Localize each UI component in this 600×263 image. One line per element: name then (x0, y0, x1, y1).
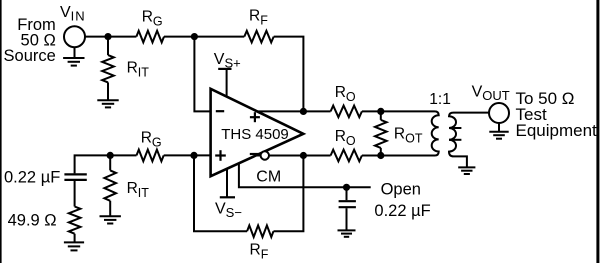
resistor RIT2 (104, 170, 116, 200)
transformer T1 secondary winding (449, 113, 489, 168)
pin + (non-inverting input) (215, 154, 226, 156)
ground (RIT1) (97, 99, 118, 101)
wire node C to RO1 (303, 110, 330, 112)
wire R49.9 to ground (74, 234, 76, 243)
wire node B down to amp inverting input (194, 37, 210, 112)
op-amp U1 THS4509 (211, 89, 304, 176)
ground (49.9 Ω) (64, 241, 84, 243)
node A (top input junction) (104, 33, 111, 40)
wire node D down to RIT2 (109, 155, 111, 170)
svg-text:1:1: 1:1 (429, 91, 451, 108)
svg-text:0.22 µF: 0.22 µF (4, 169, 60, 187)
wire RO1 to transformer (362, 110, 429, 112)
wire lower rail from C1 to RG2 (75, 155, 137, 173)
wire CM pin to Open stub (239, 163, 371, 187)
wire node A down to RIT1 (107, 37, 109, 56)
resistor RO2 (331, 150, 362, 162)
ground (VIN source) (74, 47, 76, 58)
pin - (negative output) (250, 153, 259, 155)
wire C1 to R 49.9 (74, 181, 76, 207)
port VOUT (489, 103, 509, 123)
svg-text:THS 4509: THS 4509 (221, 126, 289, 143)
supply VS- (226, 169, 228, 198)
wire RF2 up to node F (274, 156, 304, 232)
output polarity bubble (261, 151, 269, 159)
wire amp positive output to node C (258, 110, 304, 112)
wire VIN to RG1 (85, 36, 136, 38)
node D (lower input junction) (107, 152, 114, 159)
wire node E down around to RF2 (194, 155, 247, 231)
wire amp negative output to node F (256, 155, 303, 157)
svg-text:0.22 µF: 0.22 µF (374, 202, 430, 220)
ground (VOUT port) (498, 123, 500, 132)
wire RG1 to RF1 (164, 36, 244, 38)
svg-text:49.9 Ω: 49.9 Ω (8, 212, 57, 230)
wire RO2 to transformer (362, 155, 429, 157)
ground (transformer secondary) (458, 166, 475, 168)
resistor RF1 (244, 31, 273, 43)
resistor ROT (380, 111, 382, 120)
capacitor C1 0.22µF (64, 173, 86, 175)
svg-text:Source: Source (4, 47, 56, 65)
resistor RIT1 (102, 55, 114, 82)
node G (upper ROT junction) (377, 108, 384, 115)
svg-text:Equipment: Equipment (516, 121, 598, 140)
capacitor C2 0.22µF (CM) (346, 187, 348, 200)
node C (upper output) (300, 108, 307, 115)
transformer T1 primary winding (429, 111, 439, 155)
node B (top feedback tap) (191, 33, 198, 40)
pin + (positive output) (250, 116, 260, 118)
node F (lower output) (300, 152, 307, 159)
wire RIT2 to ground (109, 201, 111, 217)
resistor R 49.9 Ω (69, 207, 81, 234)
svg-text:Open: Open (381, 181, 421, 199)
resistor RG1 (136, 31, 164, 43)
ground (CM cap) (338, 229, 356, 231)
svg-text:CM: CM (256, 168, 281, 185)
source VIN (64, 26, 85, 47)
resistor RF2 (247, 225, 273, 237)
wire node F to RO2 (303, 155, 330, 157)
resistor RG2 (137, 150, 164, 162)
wire RG2 to amp non-inverting input (164, 154, 211, 156)
resistor RO1 (331, 106, 362, 118)
node E (lower feedback tap) (190, 152, 197, 159)
node H (lower ROT junction) (377, 152, 384, 159)
wire RF1 down to node C (274, 37, 304, 112)
supply VS+ (218, 68, 231, 70)
transformer secondary crossover stubs (449, 127, 461, 129)
ground (RIT2) (100, 215, 121, 217)
node I (CM cap junction) (343, 184, 350, 191)
pin - (inverting input) (216, 110, 224, 112)
wire RIT1 to ground (107, 82, 109, 100)
